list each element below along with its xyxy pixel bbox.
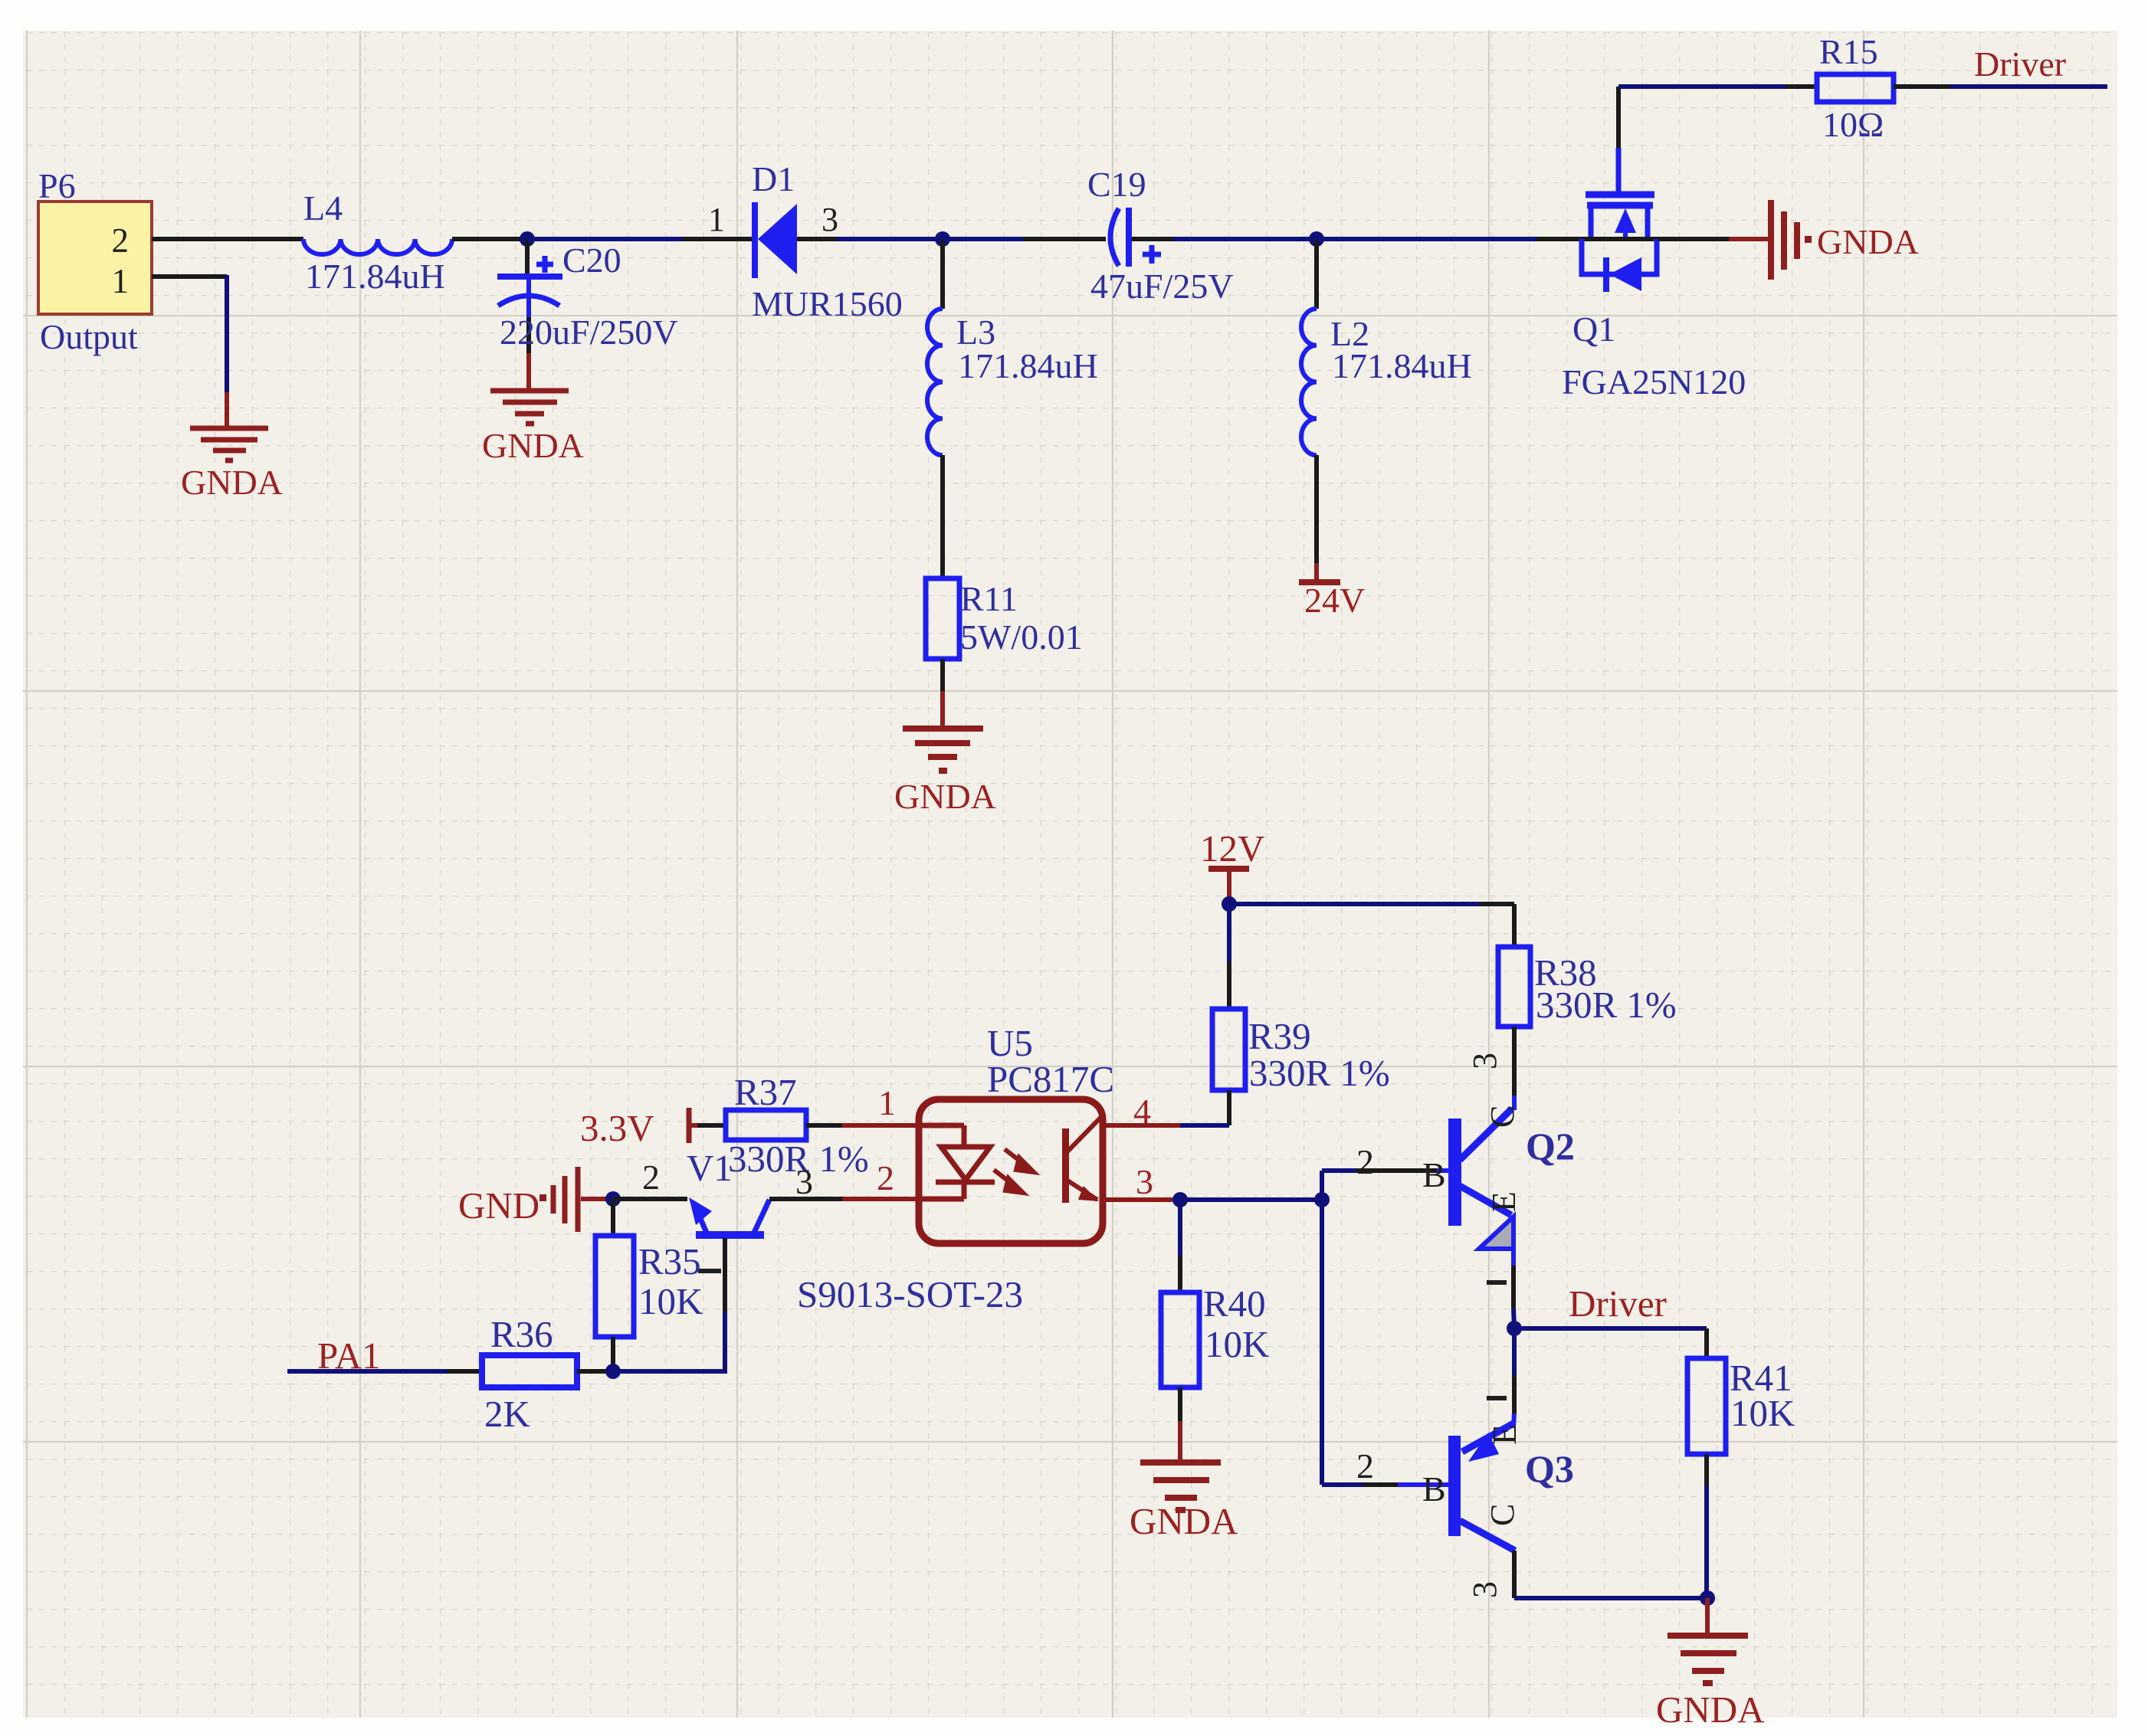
transistor V1 S9013 xyxy=(613,1147,1023,1374)
wire R41 down to GNDA node xyxy=(1704,1454,1709,1598)
svg-text:GNDA: GNDA xyxy=(181,463,283,502)
node base-tie junction xyxy=(1314,1192,1330,1207)
wire Q3 collector to GNDA node xyxy=(1466,1551,1707,1598)
resistor R39 xyxy=(1212,1009,1390,1094)
svg-text:S9013-SOT-23: S9013-SOT-23 xyxy=(797,1273,1023,1315)
resistor R41 xyxy=(1687,1357,1795,1454)
wire 12V to R38 xyxy=(1229,904,1514,947)
power 24V xyxy=(1299,581,1365,620)
node Driver junction xyxy=(1507,1321,1522,1336)
wire R37 to U5 pin1 xyxy=(806,1123,919,1128)
wire D1 to L3 node xyxy=(797,237,943,241)
wire R39 to U5 pin4 xyxy=(1106,1090,1229,1125)
wire node down to L3 xyxy=(940,239,945,309)
wire 3.3V to R37 xyxy=(697,1123,726,1128)
wire R38 to Q2 collector xyxy=(1466,1027,1514,1110)
svg-text:E: E xyxy=(1485,1191,1523,1212)
svg-text:2: 2 xyxy=(1356,1446,1374,1485)
svg-text:Q3: Q3 xyxy=(1525,1447,1574,1490)
wire P6 pin1 down xyxy=(152,275,227,426)
svg-text:330R 1%: 330R 1% xyxy=(1536,984,1677,1026)
svg-text:R11: R11 xyxy=(960,579,1018,618)
svg-text:1: 1 xyxy=(112,262,130,300)
node L3 junction xyxy=(935,231,950,247)
wire Q2 emitter down to Driver node xyxy=(1487,1249,1514,1328)
svg-text:B: B xyxy=(1422,1469,1446,1508)
wire node to V1 emitter xyxy=(613,1369,727,1374)
svg-text:2: 2 xyxy=(1356,1142,1374,1181)
wire R40 to ground xyxy=(1178,1387,1182,1459)
wire GND junction down to R35 xyxy=(611,1199,615,1236)
power 12V xyxy=(1200,827,1264,904)
wire P6 pin2 to L4 xyxy=(152,237,303,241)
svg-text:Q1: Q1 xyxy=(1572,310,1615,349)
svg-text:GNDA: GNDA xyxy=(1817,222,1919,261)
ground GNDA under P6 xyxy=(190,428,268,460)
wire Driver node to R41 xyxy=(1514,1328,1707,1358)
capacitor C19 xyxy=(1087,165,1234,306)
svg-text:Q2: Q2 xyxy=(1526,1125,1575,1168)
wire node to ground xyxy=(1705,1598,1710,1633)
svg-text:2: 2 xyxy=(642,1158,660,1197)
node PA1 junction xyxy=(605,1364,621,1379)
svg-text:5W/0.01: 5W/0.01 xyxy=(960,617,1083,657)
wire L3 node to C19 xyxy=(943,237,1106,241)
node GNDA junction bottom xyxy=(1700,1590,1715,1606)
wire pin3 junction right xyxy=(1180,1197,1322,1202)
svg-text:3: 3 xyxy=(795,1162,813,1201)
resistor R38 xyxy=(1498,947,1677,1027)
ground GNDA under C20 xyxy=(490,391,569,424)
wire R36 to node xyxy=(577,1369,613,1374)
ground GNDA bottom right xyxy=(1668,1636,1748,1683)
resistor R40 xyxy=(1161,1282,1269,1387)
diode D1 MUR1560 xyxy=(708,159,903,323)
U5 LED xyxy=(919,1125,995,1199)
svg-text:10K: 10K xyxy=(1205,1323,1269,1365)
svg-text:GNDA: GNDA xyxy=(894,777,996,816)
wire Driver node down to Q3 emitter xyxy=(1487,1328,1514,1426)
resistor R37 xyxy=(726,1071,869,1180)
wire R35 to PA1 node xyxy=(611,1337,615,1371)
wire R15 to Driver xyxy=(1894,84,2107,89)
svg-text:C: C xyxy=(1484,1105,1521,1128)
svg-text:R39: R39 xyxy=(1248,1015,1311,1057)
ground GNDA under R40 xyxy=(1140,1462,1221,1510)
wire Q1 gate to R15 xyxy=(1618,84,1817,89)
svg-text:MUR1560: MUR1560 xyxy=(752,284,903,323)
node 12V junction xyxy=(1222,896,1237,912)
resistor R35 xyxy=(595,1236,703,1337)
svg-text:171.84uH: 171.84uH xyxy=(1332,346,1472,385)
svg-text:D1: D1 xyxy=(752,159,795,198)
svg-text:C19: C19 xyxy=(1087,165,1146,204)
svg-text:2K: 2K xyxy=(484,1393,530,1435)
ground GNDA under R11 xyxy=(903,729,983,771)
capacitor C20 xyxy=(497,239,678,389)
wire pin3 junction down to R40 xyxy=(1178,1200,1182,1292)
ground GNDA right of Q1 xyxy=(1771,200,1797,280)
wire U5 pin3 out xyxy=(1104,1197,1172,1202)
svg-text:GNDA: GNDA xyxy=(482,426,584,465)
svg-text:220uF/250V: 220uF/250V xyxy=(500,313,678,352)
wire base tie vertical xyxy=(1320,1171,1324,1485)
resistor R36 xyxy=(482,1313,577,1435)
wire L3 to R11 xyxy=(940,455,945,578)
svg-text:R36: R36 xyxy=(490,1313,553,1355)
svg-text:2: 2 xyxy=(877,1158,894,1197)
svg-text:C20: C20 xyxy=(562,241,621,280)
svg-text:330R 1%: 330R 1% xyxy=(1249,1052,1390,1094)
svg-text:GNDA: GNDA xyxy=(1656,1689,1765,1731)
U5 light arrows xyxy=(994,1149,1034,1193)
svg-text:GNDA: GNDA xyxy=(1130,1500,1238,1542)
svg-text:B: B xyxy=(1422,1155,1446,1194)
transistor Q2 xyxy=(1322,1105,1575,1249)
wire L2 node to Q1 xyxy=(1317,237,1582,241)
svg-text:FGA25N120: FGA25N120 xyxy=(1562,362,1746,401)
svg-text:1: 1 xyxy=(708,201,725,238)
wire node down to L2 xyxy=(1314,239,1319,309)
node GND junction xyxy=(605,1191,621,1207)
connector P6 xyxy=(38,166,152,356)
svg-text:V1: V1 xyxy=(687,1147,733,1189)
svg-text:R15: R15 xyxy=(1819,32,1878,71)
transistor Q3 xyxy=(1322,1423,1574,1551)
wire Q1 emitter to GNDA xyxy=(1658,237,1769,241)
svg-text:GND: GND xyxy=(458,1184,539,1227)
svg-text:3: 3 xyxy=(1466,1581,1504,1598)
transistor Q1 FGA25N120 xyxy=(1562,87,1746,401)
wire L2 to 24V xyxy=(1314,455,1319,582)
svg-text:E: E xyxy=(1486,1424,1523,1445)
svg-text:C: C xyxy=(1484,1504,1521,1526)
node pin3 junction xyxy=(1172,1192,1188,1207)
net PA1 wire xyxy=(287,1335,482,1377)
wire L4 to C20 node xyxy=(452,237,527,241)
svg-text:Driver: Driver xyxy=(1974,44,2066,84)
svg-text:2: 2 xyxy=(112,221,130,260)
svg-text:10K: 10K xyxy=(1730,1392,1795,1434)
svg-text:P6: P6 xyxy=(38,166,76,205)
svg-text:171.84uH: 171.84uH xyxy=(305,257,445,296)
U5 phototransistor xyxy=(1062,1118,1104,1203)
svg-text:L4: L4 xyxy=(303,188,343,228)
svg-text:3: 3 xyxy=(821,201,838,238)
node L2 junction xyxy=(1309,231,1324,247)
svg-text:10K: 10K xyxy=(638,1280,703,1322)
wire C20 node to D1 xyxy=(527,237,754,241)
svg-text:PC817C: PC817C xyxy=(987,1058,1114,1100)
svg-text:3: 3 xyxy=(1136,1162,1153,1201)
svg-text:47uF/25V: 47uF/25V xyxy=(1090,267,1234,306)
svg-text:3: 3 xyxy=(1466,1053,1504,1069)
wire C19 to L2 node xyxy=(1132,237,1317,241)
svg-text:4: 4 xyxy=(1133,1092,1151,1131)
svg-text:3.3V: 3.3V xyxy=(580,1107,654,1149)
inductor L2 xyxy=(1301,309,1472,455)
resistor R15 xyxy=(1817,32,1894,144)
ground GND (left) xyxy=(458,1167,613,1232)
svg-text:1: 1 xyxy=(878,1083,896,1122)
wire 12V junction down to R39 xyxy=(1227,904,1231,1009)
svg-text:R37: R37 xyxy=(734,1071,797,1113)
svg-text:R35: R35 xyxy=(638,1240,701,1282)
resistor R11 xyxy=(926,578,1083,659)
node C20 junction xyxy=(520,231,535,247)
svg-text:R40: R40 xyxy=(1203,1282,1266,1325)
optocoupler U5 PC817C xyxy=(919,1022,1114,1243)
svg-text:Output: Output xyxy=(40,317,138,356)
svg-text:Driver: Driver xyxy=(1569,1282,1667,1325)
power 3.3V xyxy=(580,1107,697,1149)
U5 pin number labels xyxy=(877,1083,1153,1201)
wire R11 to ground xyxy=(940,659,945,726)
inductor L4 xyxy=(303,188,452,296)
svg-text:10Ω: 10Ω xyxy=(1822,105,1884,144)
svg-text:24V: 24V xyxy=(1304,581,1365,620)
svg-text:12V: 12V xyxy=(1200,827,1264,870)
inductor L3 xyxy=(927,309,1098,455)
svg-text:171.84uH: 171.84uH xyxy=(958,346,1098,385)
